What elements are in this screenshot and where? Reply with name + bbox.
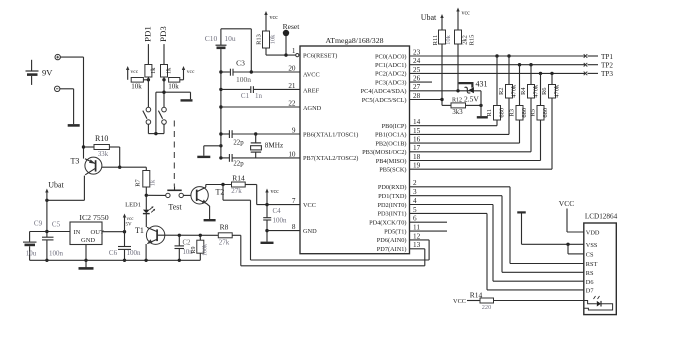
svg-text:100n: 100n (127, 249, 142, 257)
svg-text:2.5V: 2.5V (464, 94, 479, 103)
svg-text:C1: C1 (241, 92, 250, 100)
svg-text:PB7(XTAL2/TOSC2): PB7(XTAL2/TOSC2) (303, 155, 358, 162)
svg-text:RST: RST (586, 261, 598, 268)
svg-text:10k: 10k (168, 83, 179, 91)
svg-text:C3: C3 (236, 59, 245, 68)
svg-text:PD1: PD1 (142, 26, 152, 42)
svg-text:PC5(ADC5/SCL): PC5(ADC5/SCL) (362, 97, 407, 104)
svg-text:3k3: 3k3 (452, 109, 463, 116)
svg-text:6: 6 (413, 215, 417, 223)
svg-text:PD7(AIN1): PD7(AIN1) (377, 246, 407, 253)
svg-text:23: 23 (413, 48, 421, 56)
svg-text:22p: 22p (233, 139, 244, 146)
svg-text:100n: 100n (49, 250, 64, 258)
svg-text:PC6(RESET): PC6(RESET) (303, 52, 337, 59)
svg-text:PC0(ADC0): PC0(ADC0) (375, 53, 407, 60)
svg-text:Ubat: Ubat (421, 13, 437, 22)
svg-text:15: 15 (413, 127, 421, 135)
svg-text:D6: D6 (586, 279, 594, 286)
svg-text:7: 7 (292, 197, 296, 205)
svg-text:PD0(RXD): PD0(RXD) (378, 184, 407, 191)
svg-text:9: 9 (292, 126, 296, 134)
svg-text:C5: C5 (52, 221, 61, 229)
svg-text:680: 680 (521, 108, 528, 118)
svg-text:10k: 10k (270, 34, 277, 45)
svg-text:3: 3 (413, 188, 417, 196)
svg-text:10k: 10k (445, 34, 452, 45)
svg-text:10k: 10k (131, 83, 142, 91)
svg-text:2k2: 2k2 (462, 35, 469, 45)
svg-text:1k: 1k (150, 67, 157, 74)
svg-text:PD1(TXD): PD1(TXD) (378, 193, 406, 200)
svg-text:R10: R10 (95, 134, 108, 143)
svg-text:R6: R6 (541, 87, 548, 95)
svg-text:PD2(INT0): PD2(INT0) (377, 202, 406, 209)
svg-text:27k: 27k (219, 239, 230, 247)
svg-text:R12: R12 (452, 97, 462, 103)
svg-text:1: 1 (292, 47, 296, 55)
svg-text:TP2: TP2 (601, 62, 613, 70)
svg-text:LED1: LED1 (125, 202, 141, 209)
svg-text:C6: C6 (109, 249, 118, 257)
svg-text:21: 21 (288, 82, 296, 90)
svg-text:R7: R7 (135, 178, 142, 186)
svg-text:18: 18 (413, 153, 421, 161)
svg-text:R13: R13 (256, 34, 263, 45)
svg-text:2: 2 (413, 179, 417, 187)
svg-text:vcc: vcc (271, 189, 280, 195)
svg-text:Reset: Reset (283, 22, 301, 31)
svg-text:22: 22 (288, 99, 296, 107)
svg-text:Ubat: Ubat (48, 181, 64, 190)
svg-text:220: 220 (482, 304, 491, 311)
svg-text:C2: C2 (183, 239, 192, 246)
svg-text:13: 13 (413, 241, 421, 249)
svg-text:vcc: vcc (462, 11, 471, 17)
svg-text:CS: CS (586, 252, 594, 259)
svg-text:R14: R14 (470, 291, 483, 300)
svg-text:470k: 470k (511, 84, 518, 98)
svg-text:LCD12864: LCD12864 (585, 213, 618, 221)
svg-text:PD3: PD3 (158, 26, 168, 42)
svg-text:19: 19 (413, 162, 421, 170)
svg-text:PD4(XCK/T0): PD4(XCK/T0) (369, 220, 406, 227)
svg-text:D7: D7 (586, 288, 594, 295)
svg-text:26: 26 (413, 75, 421, 83)
svg-text:VDD: VDD (586, 230, 600, 237)
svg-text:4: 4 (413, 197, 417, 205)
svg-text:24: 24 (413, 57, 421, 65)
svg-text:680: 680 (542, 108, 549, 118)
svg-text:R3: R3 (509, 109, 516, 117)
svg-text:33k: 33k (98, 151, 109, 158)
svg-text:VCC: VCC (303, 202, 316, 209)
svg-text:T3: T3 (71, 157, 80, 166)
svg-text:28: 28 (413, 92, 421, 100)
svg-text:R1: R1 (486, 109, 493, 117)
svg-text:vcc: vcc (187, 69, 195, 75)
svg-text:17: 17 (413, 144, 421, 152)
svg-text:vcc: vcc (131, 69, 139, 75)
svg-text:16: 16 (413, 136, 421, 144)
svg-text:C9: C9 (34, 220, 43, 228)
svg-text:1n: 1n (255, 92, 263, 100)
svg-text:PB5(SCK): PB5(SCK) (379, 167, 406, 174)
svg-text:PD5(T1): PD5(T1) (384, 228, 406, 235)
svg-text:27k: 27k (231, 187, 242, 195)
svg-text:R8: R8 (220, 223, 229, 232)
svg-text:PC4(ADC4/SDA): PC4(ADC4/SDA) (361, 88, 407, 95)
svg-text:14: 14 (413, 118, 421, 126)
svg-text:680: 680 (499, 108, 506, 118)
svg-text:R9: R9 (191, 246, 197, 253)
svg-text:5V: 5V (126, 223, 133, 228)
svg-text:vcc: vcc (270, 15, 279, 21)
svg-text:PB4(MISO): PB4(MISO) (376, 158, 407, 165)
svg-text:PC2(ADC2): PC2(ADC2) (375, 71, 407, 78)
svg-text:C4: C4 (273, 207, 282, 215)
svg-text:1k: 1k (150, 179, 157, 186)
svg-text:TP1: TP1 (601, 53, 613, 61)
svg-text:vcc: vcc (127, 217, 135, 222)
svg-text:T1: T1 (135, 226, 144, 235)
svg-text:10: 10 (288, 150, 296, 158)
svg-text:OUT: OUT (91, 229, 104, 236)
svg-text:11: 11 (413, 224, 420, 232)
svg-text:8MHz: 8MHz (265, 141, 283, 149)
svg-text:GND: GND (81, 237, 95, 244)
svg-text:PB1(OC1A): PB1(OC1A) (375, 132, 407, 139)
svg-text:PB6(XTAL1/TOSC1): PB6(XTAL1/TOSC1) (303, 131, 358, 138)
svg-text:VCC: VCC (453, 298, 466, 305)
svg-text:AVCC: AVCC (303, 72, 320, 79)
svg-text:IC2 7550: IC2 7550 (79, 213, 108, 222)
svg-text:AREF: AREF (303, 87, 320, 94)
svg-text:22p: 22p (233, 161, 244, 168)
svg-text:8: 8 (292, 223, 296, 231)
svg-text:27: 27 (413, 83, 421, 91)
svg-text:R14: R14 (232, 174, 245, 183)
svg-text:ATmega8/168/328: ATmega8/168/328 (325, 36, 383, 45)
svg-text:20: 20 (288, 64, 296, 72)
svg-text:431: 431 (476, 80, 488, 89)
svg-text:R11: R11 (432, 35, 439, 46)
svg-text:470k: 470k (554, 84, 561, 98)
svg-text:12: 12 (413, 232, 421, 240)
svg-text:TP3: TP3 (601, 70, 613, 78)
svg-text:RS: RS (586, 270, 594, 277)
svg-text:5: 5 (413, 206, 417, 214)
svg-text:AGND: AGND (303, 105, 322, 112)
svg-text:Test: Test (168, 203, 182, 212)
svg-text:R5: R5 (530, 109, 537, 117)
svg-text:1k: 1k (166, 67, 173, 74)
svg-text:GND: GND (303, 228, 317, 235)
svg-text:R2: R2 (498, 87, 505, 95)
svg-text:100n: 100n (236, 75, 251, 84)
svg-text:PC3(ADC3): PC3(ADC3) (375, 79, 407, 86)
svg-text:9V: 9V (42, 68, 53, 78)
svg-text:100n: 100n (273, 217, 288, 225)
svg-text:PD6(AIN0): PD6(AIN0) (377, 237, 407, 244)
svg-text:10u: 10u (224, 34, 236, 43)
svg-text:PB2(OC1B): PB2(OC1B) (375, 140, 406, 147)
svg-text:C10: C10 (205, 34, 218, 43)
svg-text:PD3(INT1): PD3(INT1) (377, 211, 406, 218)
svg-text:470k: 470k (533, 84, 540, 98)
svg-text:VCC: VCC (559, 199, 574, 208)
svg-text:PB0(ICP): PB0(ICP) (382, 123, 407, 130)
svg-text:VSS: VSS (586, 242, 598, 249)
svg-text:R15: R15 (469, 35, 476, 46)
svg-text:IN: IN (74, 229, 81, 236)
svg-text:25: 25 (413, 66, 421, 74)
svg-text:R4: R4 (520, 87, 527, 95)
svg-text:10u: 10u (26, 250, 37, 258)
svg-text:100k: 100k (203, 244, 209, 256)
svg-text:PC1(ADC1): PC1(ADC1) (375, 62, 407, 69)
svg-text:PB3(MOSI/OC2): PB3(MOSI/OC2) (362, 149, 406, 156)
